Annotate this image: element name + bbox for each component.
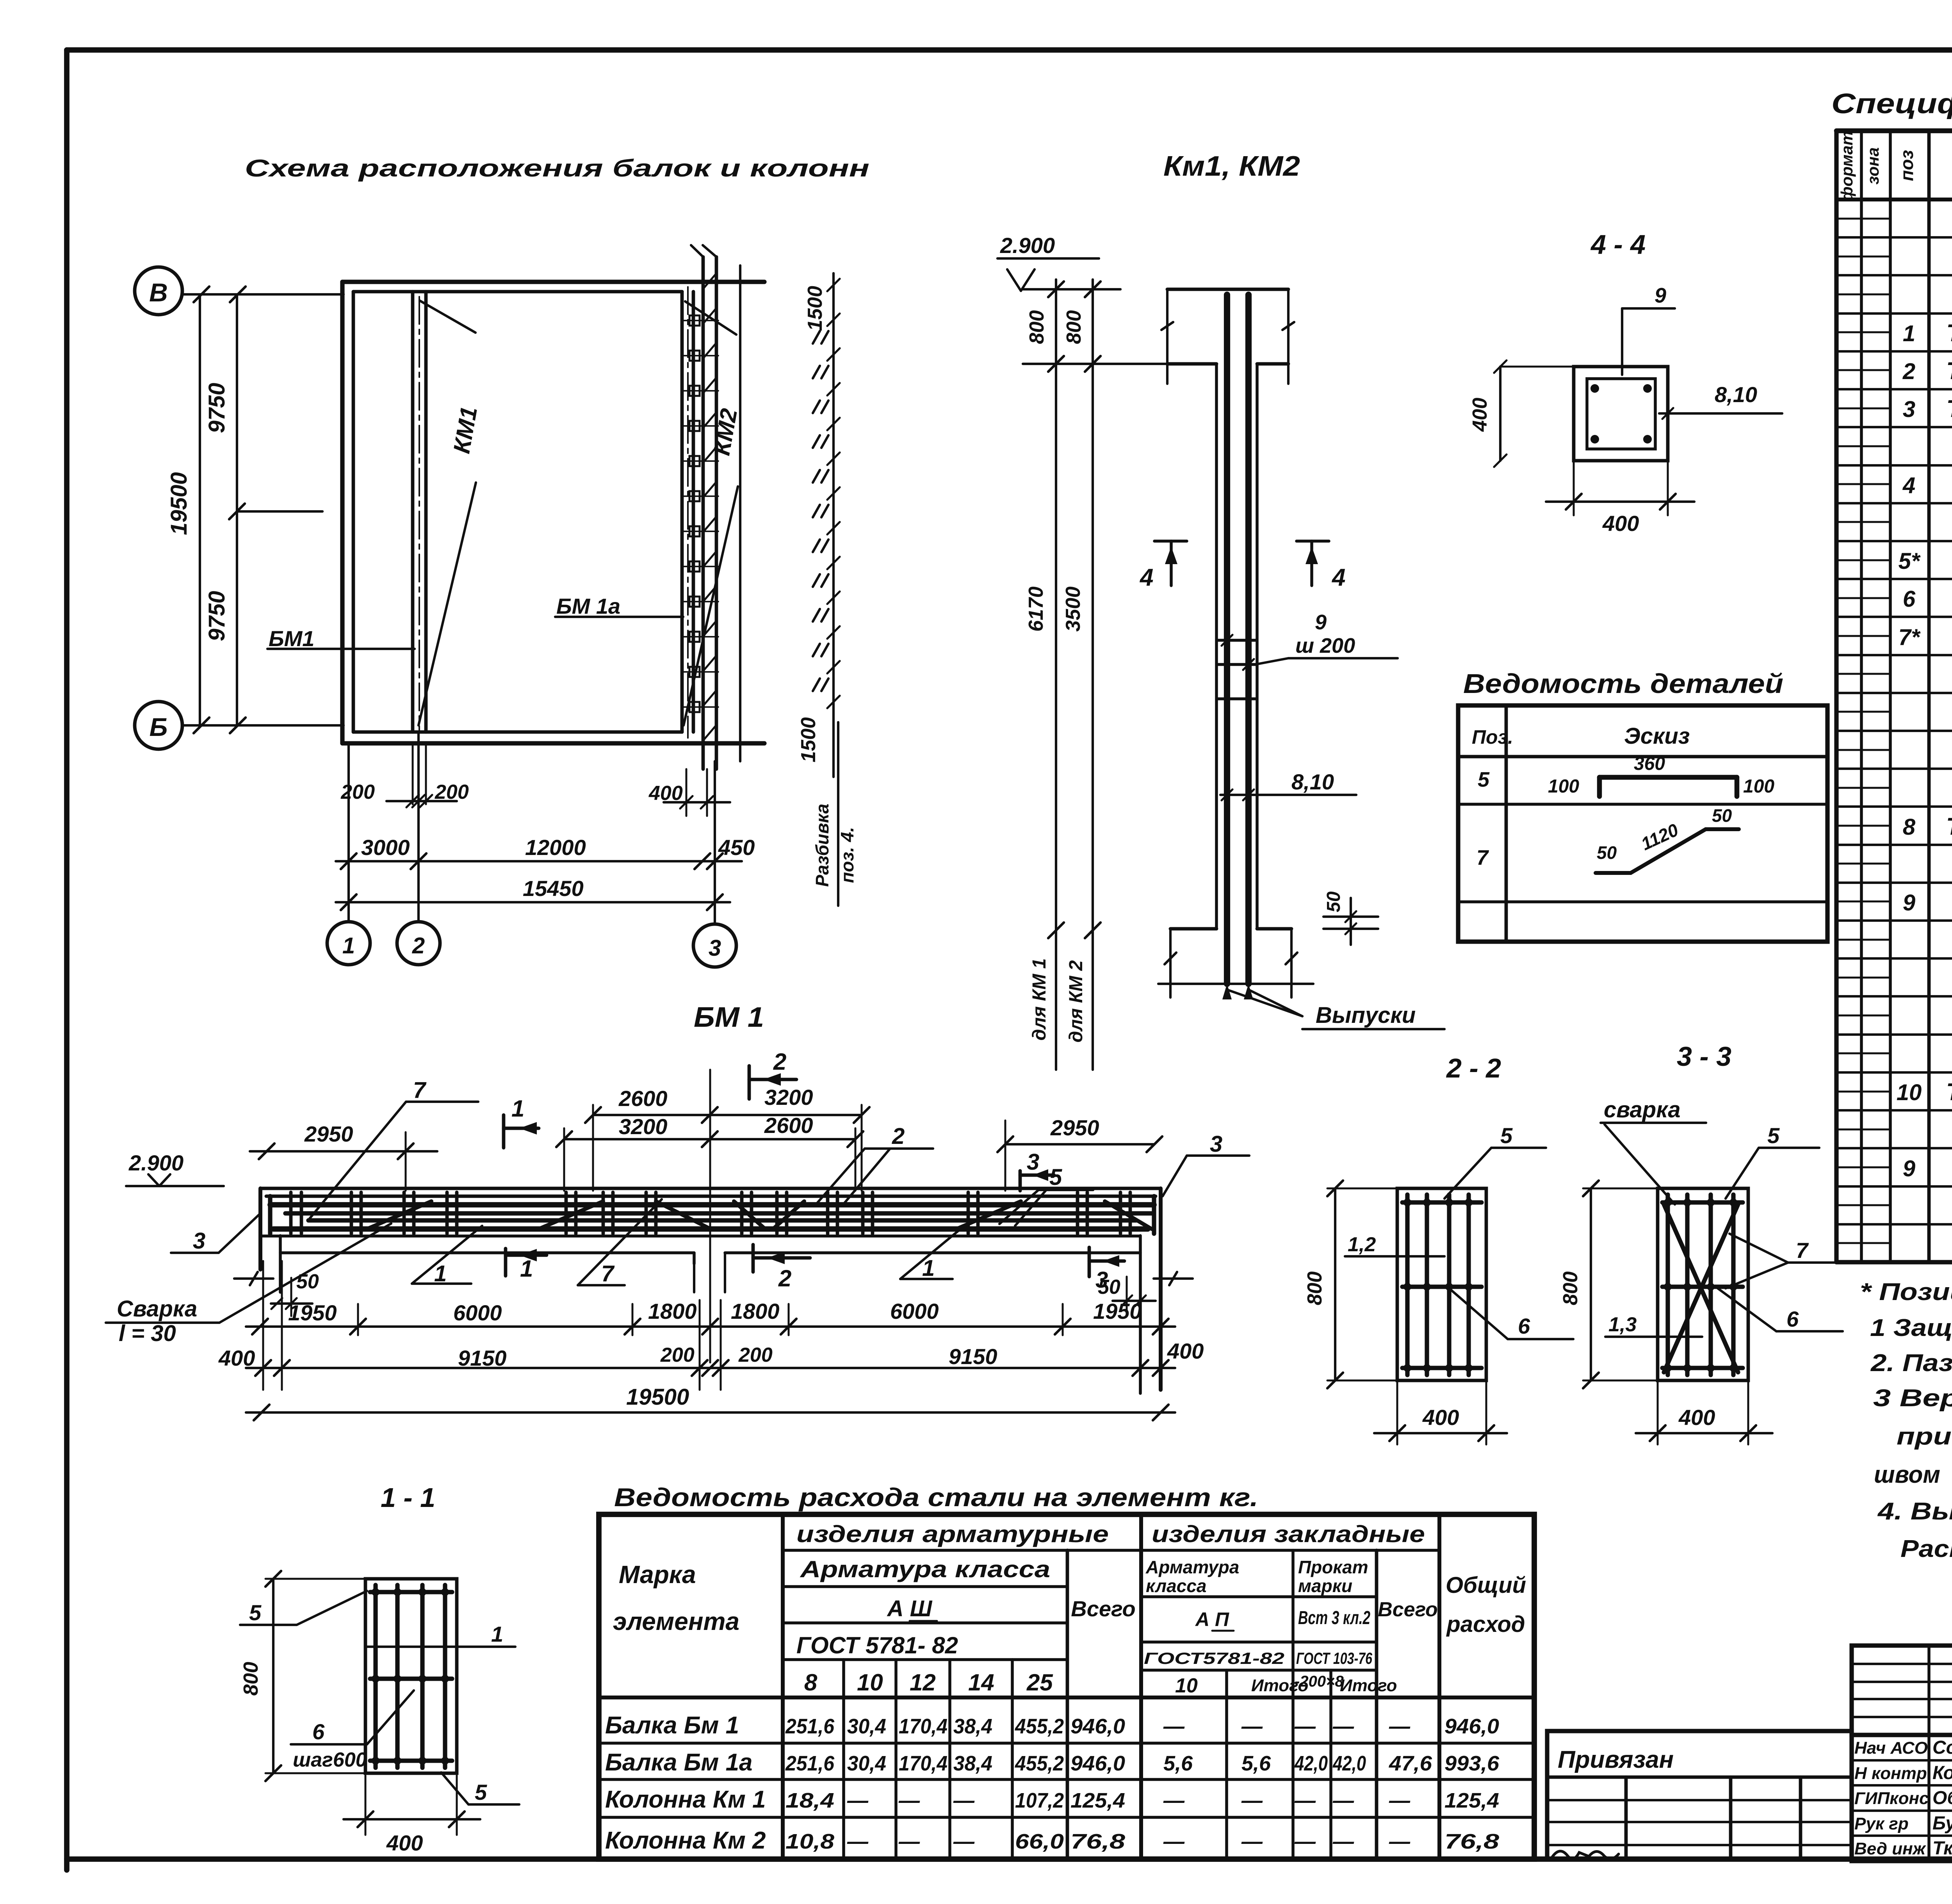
- svg-text:Итого: Итого: [1340, 1676, 1397, 1695]
- svg-text:Сварка: Сварка: [117, 1296, 197, 1322]
- svg-text:400: 400: [1167, 1339, 1204, 1363]
- leader 6 (2-2): [1449, 1288, 1573, 1339]
- svg-text:А Ш: А Ш: [887, 1596, 933, 1621]
- level mark 2.900 (column): [997, 233, 1099, 291]
- svg-text:сварка: сварка: [1604, 1097, 1681, 1122]
- leader 5 (2-2): [1444, 1123, 1546, 1199]
- svg-text:—: —: [847, 1830, 869, 1853]
- svg-text:5: 5: [1500, 1123, 1513, 1148]
- leader 5 (right): [999, 1165, 1093, 1226]
- svg-text:для КМ 1: для КМ 1: [1029, 958, 1050, 1041]
- svg-text:12000: 12000: [525, 835, 586, 860]
- svg-text:3200: 3200: [619, 1114, 668, 1139]
- plan outer walls: [342, 282, 764, 743]
- svg-text:Балка Бм 1а: Балка Бм 1а: [605, 1749, 753, 1776]
- label БМ 1а in plan: [555, 594, 683, 618]
- svg-text:6: 6: [1518, 1314, 1530, 1338]
- svg-text:Эскиз: Эскиз: [1624, 723, 1690, 749]
- svg-text:Всего: Всего: [1071, 1596, 1135, 1621]
- label 6 шаг600 (1-1): [291, 1690, 414, 1771]
- svg-text:100: 100: [1743, 776, 1774, 797]
- svg-text:2: 2: [1902, 359, 1915, 384]
- svg-text:200: 200: [738, 1344, 773, 1366]
- svg-text:2: 2: [892, 1124, 905, 1149]
- title 2-2: [1446, 1053, 1501, 1083]
- svg-text:50: 50: [1098, 1276, 1120, 1298]
- title 4-4: [1590, 229, 1646, 260]
- svg-text:6000: 6000: [453, 1300, 502, 1325]
- svg-text:—: —: [1294, 1715, 1316, 1738]
- svg-text:Вст 3 кл.2: Вст 3 кл.2: [1298, 1608, 1370, 1628]
- svg-text:Нач АСО: Нач АСО: [1854, 1738, 1928, 1758]
- hatched wall strip: [691, 245, 740, 769]
- svg-text:251,6: 251,6: [785, 1715, 835, 1738]
- level mark 2.900 (beam): [126, 1151, 224, 1186]
- svg-text:50: 50: [1712, 805, 1732, 826]
- steel table data rows: [605, 1712, 1500, 1854]
- svg-text:100: 100: [1548, 776, 1579, 797]
- title block: изм-лист grid: [1852, 1646, 1952, 1735]
- svg-text:5*: 5*: [1899, 549, 1921, 574]
- svg-text:Ковалинина: Ковалинина: [1932, 1763, 1952, 1783]
- svg-text:1950: 1950: [1093, 1299, 1142, 1323]
- svg-text:50: 50: [296, 1270, 319, 1293]
- label 8,10 (column): [1220, 769, 1356, 800]
- svg-text:1500: 1500: [797, 717, 820, 762]
- svg-text:2. Паз 5,7 приварить од: 2. Паз 5,7 приварить односторонним фланг…: [1870, 1350, 1952, 1377]
- эскиз поз.5: [1548, 753, 1774, 797]
- notes text block: [1860, 1279, 1952, 1562]
- svg-text:66,0: 66,0: [1015, 1830, 1064, 1853]
- svg-text:3: 3: [709, 935, 721, 961]
- section mark 3 (top right): [1020, 1149, 1054, 1191]
- svg-text:формат: формат: [1838, 131, 1856, 201]
- svg-text:3: 3: [1210, 1131, 1222, 1157]
- svg-text:42,0: 42,0: [1294, 1752, 1328, 1775]
- КМ2 column marks in plan: [683, 315, 718, 712]
- svg-text:9150: 9150: [949, 1344, 997, 1369]
- svg-text:10: 10: [857, 1669, 883, 1696]
- grid circle 2: [397, 922, 440, 965]
- svg-text:2.900: 2.900: [128, 1151, 183, 1175]
- svg-text:125,4: 125,4: [1444, 1789, 1499, 1812]
- leader 5 (1-1): [240, 1591, 367, 1625]
- svg-text:КМ1: КМ1: [448, 404, 482, 455]
- svg-text:800: 800: [1304, 1272, 1326, 1306]
- svg-text:400: 400: [1469, 398, 1491, 432]
- svg-text:800: 800: [240, 1662, 262, 1696]
- leader 3 (right): [1163, 1131, 1249, 1196]
- svg-text:993,6: 993,6: [1444, 1752, 1500, 1775]
- title Ведомость деталей: [1463, 668, 1783, 699]
- dimension 400 (2-2): [1374, 1382, 1507, 1444]
- svg-text:Схема расположения балок и: Схема расположения балок и колонн: [245, 155, 869, 182]
- leader 1 (left under beam): [412, 1226, 482, 1286]
- dimension 800 / 6170+3500 (column): [1023, 280, 1167, 1070]
- svg-text:поз: поз: [1897, 150, 1917, 181]
- svg-text:для КМ 2: для КМ 2: [1066, 960, 1086, 1042]
- svg-text:l = 30: l = 30: [119, 1321, 176, 1346]
- svg-text:Колонна Км 1: Колонна Км 1: [605, 1786, 766, 1813]
- section mark 2 (bottom): [753, 1245, 810, 1291]
- svg-text:Вед инж: Вед инж: [1854, 1839, 1927, 1858]
- svg-text:6000: 6000: [890, 1299, 939, 1323]
- svg-text:455,2: 455,2: [1015, 1752, 1064, 1775]
- svg-text:БМ 1: БМ 1: [694, 1002, 764, 1033]
- label сварка (3-3): [1601, 1097, 1706, 1204]
- svg-text:Км1, КМ2: Км1, КМ2: [1163, 151, 1300, 182]
- svg-text:946,0: 946,0: [1444, 1715, 1499, 1738]
- svg-text:Рук гр: Рук гр: [1854, 1814, 1909, 1833]
- beam bent-up bars: [367, 1201, 1152, 1229]
- svg-text:107,2: 107,2: [1015, 1789, 1064, 1812]
- svg-text:76,8: 76,8: [1444, 1830, 1499, 1853]
- svg-text:ГОСТ 5781- 82: ГОСТ 5781- 82: [796, 1632, 958, 1658]
- svg-text:200: 200: [435, 781, 469, 803]
- svg-text:швом: швом: [1874, 1461, 1940, 1488]
- svg-text:1950: 1950: [288, 1300, 337, 1325]
- svg-text:—: —: [1163, 1789, 1185, 1812]
- эскиз поз.7: [1596, 805, 1739, 873]
- svg-text:8: 8: [1903, 814, 1916, 840]
- svg-text:946,0: 946,0: [1070, 1752, 1125, 1775]
- svg-text:ТП902 - 1- 98. 84 КЖИ-100: ТП902 - 1- 98. 84 КЖИ-100: [1946, 813, 1952, 840]
- label 1,3 (3-3): [1605, 1313, 1702, 1337]
- svg-text:2950: 2950: [1050, 1115, 1099, 1140]
- leader 9 (4-4): [1622, 284, 1675, 375]
- svg-text:марки: марки: [1298, 1576, 1352, 1596]
- svg-text:изделия закладные: изделия закладные: [1152, 1521, 1425, 1547]
- leader 5 bottom (1-1): [441, 1772, 519, 1804]
- column КМ body: [1161, 289, 1294, 929]
- svg-text:450: 450: [718, 835, 755, 860]
- svg-text:Расположение выпусков см: Расположение выпусков смотри КЖ - 3, КЖ …: [1900, 1535, 1952, 1562]
- svg-text:1,2: 1,2: [1348, 1233, 1376, 1256]
- svg-text:—: —: [953, 1789, 975, 1812]
- svg-text:ГОСТ5781-82: ГОСТ5781-82: [1144, 1649, 1284, 1667]
- svg-text:5: 5: [249, 1600, 262, 1625]
- dimension 800 (3-3): [1559, 1181, 1661, 1388]
- svg-text:Марка: Марка: [619, 1560, 696, 1589]
- svg-text:—: —: [953, 1830, 975, 1853]
- svg-text:2950: 2950: [304, 1122, 353, 1146]
- svg-text:ТП902-1-98.84КЖИ-090: ТП902-1-98.84КЖИ-090: [1946, 395, 1952, 422]
- svg-text:В: В: [149, 278, 168, 307]
- axis 2 through beam: [709, 1070, 711, 1363]
- svg-text:251,6: 251,6: [785, 1752, 835, 1775]
- grid circle Б: [135, 702, 182, 749]
- svg-text:ТП902-1- 9.8 . 84 КЖИ-110: ТП902-1- 9.8 . 84 КЖИ-110: [1946, 1079, 1952, 1106]
- svg-text:50: 50: [1597, 842, 1617, 863]
- svg-text:1: 1: [520, 1256, 533, 1282]
- svg-text:ТП902- 1-98.84 КЖИ- 080: ТП902- 1-98.84 КЖИ- 080: [1946, 358, 1952, 385]
- dimension 19500: [246, 1384, 1175, 1420]
- grid circle 1: [327, 922, 370, 965]
- svg-text:Разбивка: Разбивка: [812, 804, 832, 887]
- leader 7 (3-3): [1726, 1234, 1852, 1288]
- svg-text:14: 14: [968, 1669, 994, 1696]
- svg-text:5,6: 5,6: [1241, 1752, 1271, 1775]
- svg-text:2 - 2: 2 - 2: [1446, 1053, 1501, 1083]
- title БМ 1: [694, 1002, 764, 1033]
- svg-text:10: 10: [1175, 1674, 1198, 1697]
- svg-text:Выпуски: Выпуски: [1316, 1003, 1416, 1028]
- svg-text:2: 2: [412, 933, 425, 958]
- steel table header texts: [613, 1521, 1526, 1697]
- svg-text:200: 200: [340, 781, 375, 803]
- svg-text:800: 800: [1559, 1272, 1582, 1306]
- svg-text:—: —: [1163, 1830, 1185, 1853]
- svg-text:6: 6: [1786, 1307, 1799, 1331]
- svg-text:—: —: [898, 1830, 920, 1853]
- dimension 1950 6000 1800 1800 6000 1950: [246, 1299, 1175, 1335]
- svg-text:элемента: элемента: [613, 1607, 739, 1635]
- svg-text:шаг600: шаг600: [293, 1749, 367, 1771]
- svg-text:Булатова: Булатова: [1932, 1813, 1952, 1834]
- svg-text:1,3: 1,3: [1608, 1313, 1637, 1336]
- svg-text:4 - 4: 4 - 4: [1590, 229, 1646, 260]
- beam outline: [260, 1188, 1161, 1390]
- title Км1, Км2: [1163, 151, 1300, 182]
- svg-text:—: —: [847, 1789, 869, 1812]
- svg-text:-200×8: -200×8: [1295, 1673, 1344, 1690]
- dimension 400 (3-3): [1636, 1382, 1772, 1444]
- svg-text:приварить к выпускам од: приварить к выпускам односторонним фланг…: [1897, 1423, 1952, 1450]
- svg-text:8: 8: [804, 1669, 817, 1696]
- svg-text:4: 4: [1331, 564, 1345, 591]
- svg-text:Сорокин: Сорокин: [1932, 1737, 1952, 1758]
- axis В line: [182, 287, 344, 302]
- svg-text:9: 9: [1903, 1156, 1915, 1181]
- svg-text:2: 2: [778, 1265, 791, 1291]
- svg-text:9: 9: [1903, 890, 1915, 915]
- svg-text:25: 25: [1026, 1669, 1053, 1696]
- svg-text:4. Выпуски из стен условн: 4. Выпуски из стен условна не показаны: [1877, 1498, 1952, 1525]
- dimension 400 (plan right): [648, 782, 730, 809]
- таблица ведомость деталей: [1458, 705, 1827, 942]
- column bottom, выпуски: [1158, 929, 1444, 1029]
- svg-text:3: 3: [193, 1228, 205, 1254]
- title 3-3: [1677, 1041, 1731, 1072]
- title block: signature rows: [1852, 1735, 1952, 1861]
- svg-text:2: 2: [773, 1049, 786, 1075]
- dimension 200 200 (plan): [340, 781, 469, 807]
- svg-text:—: —: [1241, 1789, 1263, 1812]
- leader 3 (left): [171, 1213, 260, 1254]
- svg-text:7: 7: [413, 1078, 427, 1103]
- section 1-1 body: [365, 1579, 457, 1773]
- спецификация header texts: [1838, 131, 1952, 201]
- svg-text:3200: 3200: [764, 1085, 813, 1110]
- svg-text:1: 1: [342, 933, 355, 958]
- svg-text:—: —: [1389, 1830, 1411, 1853]
- svg-text:170,4: 170,4: [899, 1715, 948, 1738]
- leader 7 (under beam): [578, 1199, 662, 1286]
- svg-text:Колонна Км 2: Колонна Км 2: [605, 1827, 766, 1854]
- svg-text:5: 5: [1478, 768, 1490, 791]
- dimension 3000 12000 450: [336, 835, 755, 869]
- svg-text:изделия арматурные: изделия арматурные: [796, 1521, 1109, 1547]
- svg-text:Всего: Всего: [1378, 1598, 1438, 1621]
- svg-text:400: 400: [1678, 1405, 1715, 1430]
- svg-text:9: 9: [1315, 611, 1327, 634]
- title block: привязан section: [1547, 1731, 1852, 1859]
- dimension 400 (1-1): [344, 1776, 480, 1855]
- svg-text:—: —: [1294, 1789, 1316, 1812]
- dimension 2950 left (beam top): [250, 1122, 437, 1191]
- svg-text:ТП902-1-98.84КЖИ-070: ТП902-1-98.84КЖИ-070: [1946, 320, 1952, 347]
- svg-text:400: 400: [386, 1831, 423, 1855]
- svg-text:—: —: [1163, 1715, 1185, 1738]
- svg-text:—: —: [1332, 1715, 1354, 1738]
- dimension 800 (2-2): [1304, 1181, 1402, 1388]
- svg-text:50: 50: [1323, 891, 1344, 912]
- svg-text:400: 400: [1602, 511, 1639, 536]
- svg-text:5: 5: [1767, 1123, 1780, 1148]
- svg-text:4: 4: [1139, 564, 1153, 591]
- section 3-3 body: [1658, 1188, 1748, 1380]
- svg-text:БМ1: БМ1: [269, 626, 314, 651]
- svg-text:Ткачук: Ткачук: [1932, 1838, 1952, 1859]
- svg-text:30,4: 30,4: [847, 1715, 886, 1738]
- svg-text:9750: 9750: [204, 591, 230, 641]
- dimension 19500 vertical: [166, 294, 200, 725]
- svg-text:8,10: 8,10: [1715, 382, 1757, 407]
- svg-text:зона: зона: [1864, 147, 1882, 184]
- axis Б line: [182, 718, 344, 733]
- title: Схема расположения балок и колонн: [245, 155, 869, 182]
- svg-text:800: 800: [1026, 310, 1048, 344]
- svg-text:5: 5: [1049, 1165, 1062, 1190]
- спецификация table grid: [1836, 131, 1952, 1262]
- svg-text:5: 5: [475, 1780, 487, 1804]
- label КМ2 with leaders: [684, 301, 742, 725]
- svg-text:ш 200: ш 200: [1295, 634, 1355, 657]
- dimension 400 left (4-4): [1469, 360, 1574, 467]
- beam БМ1а in plan: [682, 287, 693, 738]
- dimension 50 (right): [1098, 1276, 1156, 1314]
- svg-text:7: 7: [1796, 1238, 1809, 1263]
- svg-text:4: 4: [1902, 473, 1915, 498]
- axis lines down to grid circles: [349, 732, 715, 924]
- svg-text:Арматура: Арматура: [1145, 1557, 1239, 1577]
- leader 2 (right): [816, 1124, 933, 1204]
- svg-text:7: 7: [601, 1261, 615, 1286]
- svg-text:800: 800: [1063, 310, 1085, 344]
- svg-text:400: 400: [218, 1346, 255, 1370]
- svg-text:2600: 2600: [618, 1086, 668, 1111]
- svg-text:76,8: 76,8: [1070, 1830, 1125, 1853]
- svg-text:—: —: [1389, 1789, 1411, 1812]
- column rebar (thick): [1227, 295, 1248, 984]
- grid circle В: [135, 267, 182, 315]
- grid circle 3: [693, 924, 736, 967]
- svg-text:Поз.: Поз.: [1472, 726, 1513, 748]
- leader 1 (1-1): [367, 1622, 515, 1647]
- leader 1 (right under beam): [900, 1226, 964, 1281]
- svg-text:400: 400: [648, 782, 683, 805]
- svg-text:1 - 1: 1 - 1: [381, 1482, 435, 1513]
- svg-text:3500: 3500: [1062, 586, 1085, 632]
- svg-text:1800: 1800: [648, 1299, 697, 1323]
- svg-text:18,4: 18,4: [785, 1789, 834, 1812]
- svg-text:1 Защитный слой бетона д: 1 Защитный слой бетона для рабочей армат…: [1870, 1314, 1952, 1341]
- handwriting at bottom edge: [1552, 1851, 1619, 1859]
- svg-text:* Позиции смотри ведо: * Позиции смотри ведомость деталей.: [1860, 1279, 1952, 1306]
- leader 5 (3-3): [1726, 1123, 1819, 1199]
- svg-text:6: 6: [312, 1719, 325, 1744]
- leader 6 (3-3): [1718, 1288, 1843, 1331]
- label Сварка l=30: [106, 1224, 391, 1346]
- svg-text:—: —: [1332, 1830, 1354, 1853]
- dimension 2600/3200 (beam top): [556, 1085, 869, 1191]
- svg-text:10: 10: [1897, 1080, 1922, 1105]
- svg-text:30,4: 30,4: [847, 1752, 886, 1775]
- svg-text:—: —: [898, 1789, 920, 1812]
- section mark 4-4 arrows: [1139, 541, 1345, 591]
- section mark 2 (top): [749, 1049, 796, 1099]
- svg-text:1500: 1500: [804, 286, 826, 331]
- svg-text:Общий: Общий: [1446, 1573, 1526, 1598]
- dimension 400 9150 200 200 9150 400: [218, 1261, 1204, 1390]
- svg-text:1: 1: [1903, 321, 1915, 346]
- svg-text:Спецификация на балку БМ: Спецификация на балку БМ 1 и колонны КМ1…: [1831, 88, 1952, 119]
- svg-text:—: —: [1389, 1715, 1411, 1738]
- svg-text:3: 3: [1027, 1149, 1039, 1175]
- svg-text:8,10: 8,10: [1291, 769, 1334, 794]
- beam БМ1 in plan: [413, 292, 426, 732]
- svg-text:5,6: 5,6: [1163, 1752, 1193, 1775]
- svg-text:3000: 3000: [361, 835, 410, 860]
- svg-text:Ведомость расхода стали: Ведомость расхода стали на элемент кг.: [614, 1483, 1258, 1512]
- svg-text:3 - 3: 3 - 3: [1677, 1041, 1731, 1072]
- svg-text:360: 360: [1634, 753, 1665, 774]
- svg-text:Балка Бм 1: Балка Бм 1: [605, 1712, 739, 1739]
- svg-text:расход: расход: [1446, 1612, 1525, 1637]
- dimension 800 (1-1): [240, 1571, 369, 1781]
- svg-text:Прокат: Прокат: [1298, 1557, 1368, 1577]
- section mark 1 (bottom): [506, 1249, 547, 1282]
- svg-text:Б: Б: [150, 712, 168, 741]
- svg-text:15450: 15450: [523, 876, 584, 901]
- beam longitudinal rebar: [273, 1213, 1152, 1229]
- dimension 400 below (4-4): [1546, 461, 1694, 536]
- svg-text:125,4: 125,4: [1070, 1789, 1125, 1812]
- svg-text:3: 3: [1903, 397, 1915, 422]
- svg-text:1800: 1800: [731, 1299, 780, 1323]
- svg-text:БМ 1а: БМ 1а: [556, 594, 620, 618]
- dimension 9750+9750 vertical: [204, 294, 322, 725]
- svg-text:1: 1: [511, 1095, 524, 1122]
- wall outline below beam: [280, 1236, 1140, 1393]
- svg-text:—: —: [1332, 1789, 1354, 1812]
- dimension 50 (left): [271, 1270, 319, 1316]
- svg-text:6170: 6170: [1025, 586, 1047, 632]
- svg-text:47,6: 47,6: [1389, 1752, 1432, 1775]
- svg-text:Привязан: Привязан: [1558, 1746, 1674, 1773]
- svg-text:—: —: [1241, 1715, 1263, 1738]
- svg-text:9150: 9150: [458, 1346, 507, 1370]
- svg-text:Ведомость деталей: Ведомость деталей: [1463, 668, 1783, 699]
- svg-text:170,4: 170,4: [899, 1752, 948, 1775]
- svg-text:400: 400: [1422, 1405, 1459, 1430]
- svg-text:42,0: 42,0: [1332, 1752, 1366, 1775]
- svg-text:19500: 19500: [166, 472, 192, 535]
- section mark 1 (top): [504, 1095, 539, 1148]
- dimension 1500-repeat vertical: [797, 273, 840, 777]
- svg-text:7*: 7*: [1899, 625, 1921, 650]
- steel table grid: [599, 1514, 1534, 1859]
